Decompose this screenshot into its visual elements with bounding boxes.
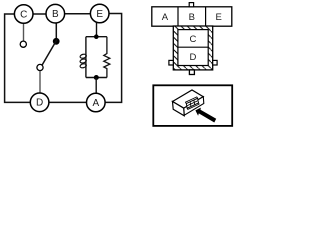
svg-text:D: D [189,52,196,63]
connector icon socket top sliver [186,97,198,104]
wire parallel bottom bar [86,77,107,79]
switch pivot node [53,38,60,45]
connector bottom tab [189,70,194,75]
switch blade [42,40,57,65]
svg-text:B: B [52,9,59,20]
terminal A [87,93,106,112]
connector icon body top face [173,90,204,108]
svg-text:E: E [216,12,222,23]
wire gray stub contact to D [39,71,41,93]
wire C to B [33,13,46,15]
svg-text:E: E [96,9,103,20]
svg-text:D: D [36,98,43,109]
svg-text:B: B [189,12,195,23]
wire B to E [65,13,91,15]
svg-text:A: A [92,98,99,109]
connector icon body front face [173,102,185,116]
node top junction [94,34,99,39]
node bottom junction [94,75,99,80]
inductor coil left branch [80,37,87,78]
wire D to A [49,101,87,103]
terminal B [46,4,65,23]
connector photo frame box [153,85,232,126]
connector right tab [213,60,217,65]
terminal E [90,4,109,23]
wire right loop E to A [105,14,121,103]
wire left loop C to D [5,14,31,102]
switch contact terminal above D [37,64,43,70]
arrow [195,108,216,123]
pinout top tab [189,3,193,7]
terminal C [14,5,33,24]
connector pinout row A B E [152,7,232,26]
connector body hatched box [173,26,212,70]
terminal D [30,93,49,112]
wire E stub down [96,23,98,37]
resistor right branch [104,37,110,78]
connector icon socket grid [186,98,199,109]
wire A stub up [95,78,97,94]
svg-text:C: C [189,34,196,45]
wire parallel top bar [86,36,107,38]
open terminal below C [20,41,26,47]
svg-text:A: A [162,12,169,23]
connector icon body right face [184,97,204,116]
wire B stub to switch pivot [55,23,57,39]
wire gray stub below C [23,24,25,41]
connector left tab [169,60,173,65]
svg-text:C: C [20,9,27,20]
